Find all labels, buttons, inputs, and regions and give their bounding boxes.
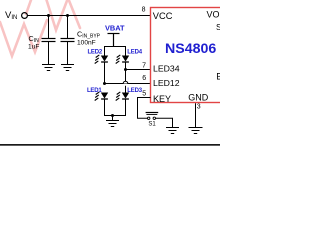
svg-text:LED2: LED2 (87, 50, 102, 56)
svg-text:KEY: KEY (153, 94, 171, 104)
node LED34 (124, 68, 127, 71)
svg-text:7: 7 (142, 63, 146, 70)
wire pin5 KEY to switch (138, 98, 151, 119)
LED LED3 (116, 86, 143, 101)
svg-text:1uF: 1uF (28, 44, 39, 51)
ground LED rail (106, 116, 119, 127)
svg-text:VOUT: VOUT (207, 10, 221, 20)
ground pin3 (189, 128, 203, 134)
svg-text:NS4806: NS4806 (165, 41, 216, 57)
svg-text:5: 5 (142, 90, 146, 97)
wire LED4 cathode to node (125, 62, 127, 81)
LED LED4 (116, 50, 143, 64)
node junction CIN_BYP (66, 14, 69, 17)
capacitor CIN_BYP (61, 16, 75, 65)
node LED ground (111, 114, 114, 117)
IC U1 NS4806 box (151, 8, 226, 103)
svg-text:8: 8 (142, 7, 146, 14)
ground under CIN_BYP (61, 65, 74, 71)
svg-text:CIN: CIN (29, 34, 40, 44)
svg-text:VCC: VCC (153, 11, 173, 21)
svg-text:100nF: 100nF (77, 40, 96, 47)
wire pin7 LED34 (126, 69, 151, 71)
svg-text:BYP: BYP (216, 72, 220, 82)
ground S1 (166, 128, 179, 134)
node LED12 (103, 82, 106, 85)
switch S1 (146, 113, 159, 120)
LED LED1 (87, 88, 108, 101)
svg-text:LED1: LED1 (87, 88, 102, 94)
svg-text:GND: GND (188, 93, 209, 103)
svg-text:VIN: VIN (5, 10, 17, 21)
wire switch to ground (156, 118, 173, 127)
svg-text:S1: S1 (148, 121, 156, 127)
svg-text:LED3: LED3 (127, 88, 142, 94)
wire pin3 GND (195, 103, 197, 127)
svg-text:VBAT: VBAT (105, 24, 125, 33)
node junction CIN (47, 14, 50, 17)
wire LED supply rail (105, 47, 126, 56)
LED LED2 (87, 50, 108, 84)
svg-text:LED12: LED12 (153, 78, 180, 88)
svg-text:LED4: LED4 (127, 50, 142, 56)
svg-text:6: 6 (142, 75, 146, 82)
capacitor CIN (42, 16, 56, 65)
wire LED bottom rail (105, 99, 126, 116)
svg-text:CIN_BYP: CIN_BYP (77, 30, 101, 40)
svg-text:S: S (216, 22, 220, 32)
wire pin6 LED12 (105, 83, 151, 85)
svg-text:3: 3 (197, 104, 201, 111)
wire hop LED3 over LED12 (123, 81, 128, 83)
wire top rail (28, 15, 151, 17)
svg-text:LED34: LED34 (153, 63, 180, 73)
terminal VIN (22, 13, 28, 19)
footer rule (0, 144, 220, 146)
watermark (0, 0, 80, 56)
ground under CIN (42, 65, 55, 71)
